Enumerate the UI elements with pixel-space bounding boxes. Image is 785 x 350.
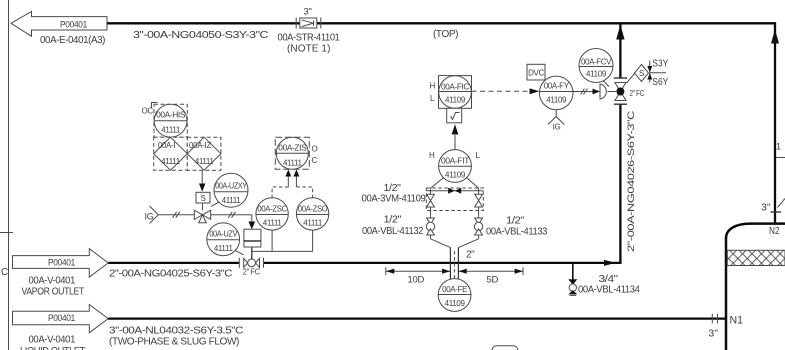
svg-text:1/2": 1/2": [506, 216, 525, 227]
svg-text:P00401: P00401: [48, 258, 75, 269]
svg-text:41111: 41111: [283, 159, 303, 168]
instrument bubble 00A-ZSO: [296, 198, 328, 230]
interlock 00A-IZ: [187, 137, 221, 170]
svg-text:00A-HIS: 00A-HIS: [156, 111, 185, 120]
svg-text:C: C: [312, 156, 318, 165]
svg-text:41111: 41111: [195, 157, 215, 166]
svg-text:S: S: [639, 69, 644, 78]
nozzle N2 flange: [761, 199, 785, 238]
border line: [8, 0, 10, 350]
svg-text:41111: 41111: [263, 219, 283, 228]
svg-text:00A-IZ: 00A-IZ: [189, 141, 211, 150]
nozzle N1 flanges: [708, 314, 743, 340]
svg-text:5D: 5D: [487, 275, 499, 286]
svg-text:00A-VBL-41132: 00A-VBL-41132: [362, 226, 424, 237]
pipe riser lower + main line elbow: [264, 104, 621, 263]
switch connection wires: [252, 230, 313, 251]
interlock 00A-HIS shared: [142, 103, 188, 138]
signal FY to FCV: [573, 91, 593, 93]
svg-text:41111: 41111: [222, 196, 242, 205]
svg-text:3"-00A-NL04032-S6Y-3.5"C: 3"-00A-NL04032-S6Y-3.5"C: [109, 326, 243, 337]
actuated valve 00A-UZV on main line: [239, 247, 263, 277]
svg-text:41111: 41111: [303, 219, 323, 228]
svg-text:41109: 41109: [445, 96, 466, 105]
svg-text:2"-00A-NG04025-S6Y-3"C: 2"-00A-NG04025-S6Y-3"C: [109, 269, 232, 280]
svg-text:00A-FE: 00A-FE: [442, 285, 467, 294]
svg-text:H: H: [430, 82, 436, 91]
svg-text:C: C: [1, 267, 8, 278]
instrument bubble 00A-FE: [438, 279, 471, 312]
svg-text:41111: 41111: [161, 157, 181, 166]
svg-text:10D: 10D: [408, 275, 425, 286]
svg-text:41109: 41109: [445, 171, 466, 180]
valve 00A-VBL-41133: [474, 218, 482, 239]
svg-text:00A-VBL-41133: 00A-VBL-41133: [486, 227, 548, 238]
square root extractor: [447, 108, 462, 123]
instrument 00A-FIC shared display: [430, 76, 472, 109]
svg-text:DVC: DVC: [528, 69, 544, 78]
svg-text:N1: N1: [730, 315, 744, 327]
impulse diagonals to orifice taps: [431, 239, 479, 248]
instrument bubble 00A-UZXY: [211, 173, 248, 207]
solenoid box S: [196, 192, 210, 203]
3-way solenoid valve: [159, 203, 252, 223]
pipe bottom line 3"-00A-NL04032: [108, 319, 726, 348]
svg-text:00A-V-0401: 00A-V-0401: [29, 276, 76, 287]
instrument bubble 00A-ZSC: [256, 198, 288, 230]
svg-text:L: L: [430, 94, 435, 103]
svg-text:1/2": 1/2": [384, 215, 402, 226]
flow arrow right on main line: [604, 260, 616, 266]
svg-text:(TOP): (TOP): [433, 29, 458, 40]
svg-text:00A-STR-41101: 00A-STR-41101: [278, 33, 341, 44]
svg-text:00A-FIC: 00A-FIC: [441, 83, 470, 92]
callout 1 at edge: [776, 142, 785, 158]
valve 00A-VBL-41132: [426, 218, 434, 239]
instrument bubble 00A-FY with DVC: [527, 64, 573, 109]
solenoid diamond S: [627, 58, 669, 89]
svg-text:00A-ZSO: 00A-ZSO: [298, 205, 328, 214]
instrument bubble 00A-UZV: [207, 223, 244, 256]
3-valve manifold 00A-3VM-41109: [426, 188, 483, 218]
svg-text:IG: IG: [553, 123, 561, 132]
svg-text:P00401: P00401: [48, 313, 75, 324]
position switch 00A-ZIS shared: [275, 137, 317, 169]
svg-text:41109: 41109: [546, 96, 567, 105]
svg-text:2"-00A-NG04026-S6Y-3"C: 2"-00A-NG04026-S6Y-3"C: [626, 110, 637, 252]
svg-text:(NOTE 1): (NOTE 1): [287, 44, 330, 55]
svg-text:2" FC: 2" FC: [243, 268, 261, 277]
zone tick: [0, 232, 13, 234]
svg-text:P00401: P00401: [60, 20, 87, 31]
dimension 10D / 5D: [386, 267, 523, 285]
svg-text:L: L: [476, 151, 481, 160]
svg-text:S: S: [201, 194, 206, 203]
pipe main 2"-00A-NG04025 left segment: [108, 262, 239, 264]
dashed links ZSC/ZSO to ZIS: [272, 187, 313, 198]
svg-text:00A-FCV: 00A-FCV: [581, 58, 612, 67]
svg-text:00A-UZV: 00A-UZV: [209, 230, 238, 239]
svg-text:41109: 41109: [586, 70, 607, 79]
svg-text:00A-V-0401: 00A-V-0401: [29, 335, 76, 346]
svg-text:LIQUID OUTLET: LIQUID OUTLET: [20, 346, 85, 350]
svg-text:41109: 41109: [445, 299, 466, 308]
FCV actuator diaphragm: [600, 84, 606, 99]
interlock 00A-I: [154, 137, 188, 170]
impulse lines FIT to manifold: [431, 178, 479, 188]
signal from IZ arrow into solenoid: [199, 170, 205, 192]
flow arrow up on N2 riser: [771, 30, 779, 44]
off-page connector P00401 vapor: [13, 249, 109, 298]
svg-text:3": 3": [708, 328, 718, 340]
signal FIT to sqrt arrow: [452, 124, 459, 149]
svg-text:2" FC: 2" FC: [630, 89, 645, 98]
svg-text:2": 2": [466, 250, 475, 261]
off-page connector P00401 liquid: [13, 305, 109, 350]
pipe riser 2"-00A-NG04026 upper: [619, 23, 621, 78]
signal FIC to FY dashed: [472, 90, 530, 92]
svg-text:41111: 41111: [161, 126, 181, 135]
svg-text:IG: IG: [145, 212, 154, 222]
svg-text:41111: 41111: [214, 244, 234, 253]
signal arrows into ZIS: [285, 170, 299, 188]
svg-text:(TWO-PHASE & SLUG FLOW): (TWO-PHASE & SLUG FLOW): [109, 337, 239, 348]
svg-text:00A-ZSC: 00A-ZSC: [257, 205, 287, 214]
svg-text:00A-FIT: 00A-FIT: [441, 157, 469, 166]
svg-text:00A-E-0401(A3): 00A-E-0401(A3): [40, 35, 105, 46]
svg-text:00A-FY: 00A-FY: [544, 82, 570, 91]
flow arrow up into top line at FCV riser: [616, 25, 624, 40]
instrument bubble 00A-FIT: [429, 150, 481, 183]
svg-text:3": 3": [761, 202, 771, 214]
instrument bubble 00A-FCV: [579, 49, 613, 87]
off-page connector P00401 top: [11, 12, 107, 47]
svg-text:S6Y: S6Y: [652, 76, 668, 88]
svg-text:00A-3VM-41109: 00A-3VM-41109: [362, 194, 427, 205]
svg-text:3": 3": [303, 7, 311, 18]
svg-text:3"-00A-NG04050-S3Y-3"C: 3"-00A-NG04050-S3Y-3"C: [133, 30, 268, 41]
IG supply flag left: [145, 206, 159, 224]
svg-text:1: 1: [776, 142, 781, 152]
pipe top line 3"-00A-NG04050: [107, 23, 775, 224]
svg-text:00A-I: 00A-I: [158, 141, 175, 150]
IG supply under FY: [548, 110, 564, 132]
svg-text:N2: N2: [769, 225, 780, 237]
svg-text:00A-UZXY: 00A-UZXY: [215, 182, 247, 191]
branch valve 00A-VBL-41134: [568, 264, 640, 296]
strainer 00A-STR-41101: [278, 7, 341, 55]
svg-text:H: H: [429, 151, 435, 160]
vessel demister hatch band: [727, 250, 785, 265]
cut-off bubble bottom: [492, 346, 518, 350]
control valve 00A-FCV-41109: [614, 78, 645, 104]
UZV piston actuator: [244, 215, 261, 247]
svg-text:00A-ZIS: 00A-ZIS: [278, 144, 306, 153]
svg-text:O: O: [312, 145, 318, 154]
orifice flange taps: [450, 248, 475, 281]
svg-text:00A-VBL-41134: 00A-VBL-41134: [578, 285, 640, 296]
svg-text:S3Y: S3Y: [652, 58, 668, 70]
svg-text:VAPOR OUTLET: VAPOR OUTLET: [22, 287, 85, 298]
vessel 00A-V-0401 shell: [726, 224, 785, 350]
